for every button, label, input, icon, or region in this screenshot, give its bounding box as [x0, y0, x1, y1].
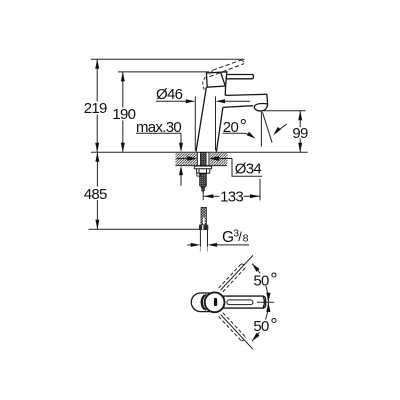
mounting shank hole left edge: [196, 152, 198, 165]
spout top line: [225, 94, 267, 95]
dim 190 text: [112, 106, 136, 123]
dim Ø34 leader right arrow: [209, 156, 232, 161]
dim 190 arrow down: [121, 143, 125, 153]
dim 219 text: [84, 100, 107, 117]
dim Ø34 box: [232, 159, 262, 177]
dim 219 arrow up: [95, 59, 99, 69]
dim Ø46 arrow left: [216, 99, 251, 103]
top view body circle: [205, 292, 225, 312]
deck top line: [91, 151, 308, 153]
G3/8 nut: [199, 225, 208, 230]
deck hatch left band: [176, 153, 197, 165]
svg-text:8: 8: [243, 232, 249, 244]
dim 190 arrow up: [121, 72, 125, 82]
faucet body right edge: [216, 107, 223, 151]
upper 50 shaft line: [221, 255, 253, 290]
dim 190 top extension line: [118, 71, 210, 73]
faucet neck right edge: [224, 86, 226, 95]
G3/8 nut highlight: [202, 225, 203, 230]
outlet stream angled line: [263, 112, 273, 142]
deck bottom line: [176, 165, 227, 167]
max.30 arrow down: [179, 143, 183, 153]
mounting nut facet lines: [199, 169, 207, 173]
dim Ø46 left extension line: [194, 97, 196, 151]
top view lower dashed lever edge B: [223, 313, 246, 337]
svg-text:99: 99: [292, 125, 308, 142]
dim 133 line: [204, 195, 260, 197]
dim 133 text: [220, 189, 244, 206]
dim 99 arrow down: [298, 143, 302, 153]
dim 485 text: [84, 186, 108, 203]
lever handle raised dashed upper line: [213, 60, 241, 70]
dim 485 bottom extension line: [89, 228, 200, 230]
svg-text:219: 219: [84, 100, 107, 117]
mounting threaded shank through deck: [200, 152, 206, 165]
mounting shank hole right edge: [208, 152, 210, 165]
upper 50 arc far arrowhead: [252, 263, 260, 273]
outlet stream vertical line: [260, 112, 262, 147]
G3/8 dim left line: [187, 244, 191, 246]
raised lever hidden root dash: [210, 70, 213, 74]
dim 219 arrow down: [95, 143, 99, 153]
dim 20 right arc arrow: [273, 124, 287, 135]
G3/8 dim right arrow: [208, 243, 218, 247]
dim Ø46 arrow right: [186, 99, 196, 103]
G3/8 thread white stripe: [203, 217, 205, 224]
mounting nut: [197, 169, 210, 173]
lever head housing: [206, 72, 226, 87]
G3/8 tube left edge: [199, 230, 201, 247]
top view lever centerline: [257, 301, 274, 303]
lower 50 shaft line: [221, 315, 253, 350]
svg-text:190: 190: [112, 106, 135, 123]
top view lever inner ridge: [227, 300, 253, 305]
svg-text:50°: 50°: [253, 314, 277, 335]
top view lever inner end cap: [263, 297, 264, 308]
G3/8 threaded end: [201, 207, 206, 224]
top view spout junction arc 2: [201, 295, 204, 310]
stud thin rod: [202, 188, 205, 191]
washer below deck: [194, 166, 211, 169]
faucet body left edge: [196, 87, 206, 151]
svg-text:Ø46: Ø46: [156, 86, 183, 103]
top view spout double arc: [202, 294, 206, 310]
lower 50 arc far arrowhead: [252, 332, 260, 342]
dim 99 top extension line: [264, 110, 306, 112]
stud tip: [203, 191, 204, 193]
outlet aerator: [254, 104, 267, 111]
max.30 arrow up: [179, 166, 183, 176]
lower 50 arc near arrowhead: [266, 302, 270, 312]
top view upper dashed lever edge B: [223, 268, 246, 292]
lever handle raised dashed lower line: [210, 64, 245, 77]
top view spout stadium: [191, 293, 209, 312]
G3/8 dim right line: [217, 244, 249, 246]
dim Ø46 right extension line: [215, 97, 217, 151]
upper 50 text: [253, 269, 278, 290]
max.30 leader down: [180, 133, 182, 143]
spout bottom line: [223, 106, 253, 108]
lever handle horizontal: [226, 75, 254, 79]
G3/8 label: [222, 227, 249, 246]
max.30 lower leader: [180, 175, 182, 186]
dim 20 leader curve and arrow: [244, 132, 256, 139]
dim 99 text: [292, 125, 309, 142]
top view lower dashed lever cap: [241, 337, 245, 341]
G3/8 dim left arrow: [191, 243, 201, 247]
lever swing dashed arc at head left: [203, 77, 206, 89]
svg-text:485: 485: [84, 186, 107, 203]
top view upper dashed lever cap: [241, 264, 245, 268]
stud taper: [200, 186, 207, 188]
dim Ø46 label and underline: [156, 86, 187, 103]
svg-text:Ø34: Ø34: [235, 160, 262, 177]
top view upper dashed lever edge A: [219, 264, 242, 288]
dim 485 arrow up: [95, 152, 99, 162]
dim 99 line: [299, 111, 301, 153]
dim 219 line: [96, 59, 98, 152]
dim 20 text and underline: [223, 115, 247, 136]
top view lever: [221, 296, 266, 308]
dim 190 line: [122, 72, 124, 152]
dim 219 top extension line: [91, 58, 245, 60]
svg-text:133: 133: [220, 189, 243, 206]
dim 133 arrow left: [204, 194, 214, 198]
upper 50 arc: [252, 264, 268, 303]
spout right edge: [266, 94, 269, 104]
dim 485 line: [96, 152, 98, 229]
deck hatch right band: [210, 153, 228, 165]
threaded stud below nut: [200, 173, 207, 186]
max.30 label and underline: [136, 119, 181, 136]
top view lower dashed lever edge A: [219, 317, 242, 341]
upper 50 arc near arrowhead: [266, 293, 270, 303]
lower 50 arc: [252, 302, 268, 341]
dim Ø34 leader left arrow: [177, 156, 198, 161]
svg-text:/: /: [238, 229, 242, 244]
svg-text:50°: 50°: [253, 269, 277, 290]
lever handle raised dashed end cap: [241, 60, 244, 64]
top view cartridge slot: [214, 298, 217, 306]
dim 133 right extension line: [259, 179, 261, 201]
lever head inner line: [221, 72, 226, 86]
dim 133 arrow right: [250, 194, 260, 198]
lower 50 text: [253, 314, 278, 335]
dim 485 arrow down: [95, 220, 99, 230]
nut small tab: [197, 173, 200, 176]
G3/8 tube right edge: [207, 230, 209, 247]
dim 99 arrow up: [298, 111, 302, 121]
stud centerline extension: [202, 193, 204, 201]
